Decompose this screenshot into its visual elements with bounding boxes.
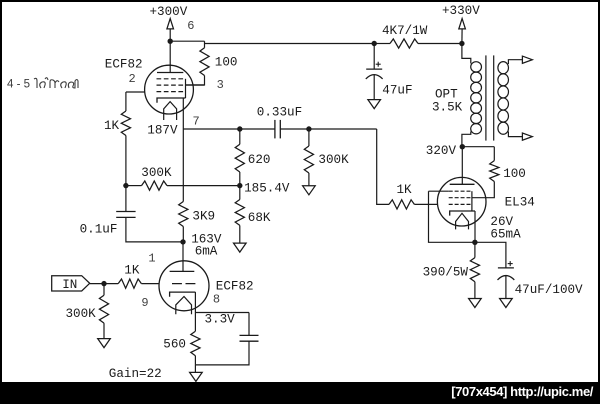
tube V2 grid xyxy=(172,283,196,285)
wire V1 g1 lead xyxy=(126,91,145,93)
node junction 300K grid xyxy=(306,126,311,131)
wire 320V to screen resistor xyxy=(462,146,494,148)
wire V1 plate lead xyxy=(169,41,171,72)
resistor R 620 xyxy=(235,144,244,172)
wire 300K grid top lead xyxy=(308,129,310,146)
wire 1K to grid xyxy=(141,283,158,285)
capacitor C 0.33uF xyxy=(275,120,280,138)
resistor R 390/5W top lead xyxy=(474,242,476,257)
wire 100R bottom lead xyxy=(186,76,205,85)
wire OPT primary top lead xyxy=(462,44,471,64)
resistor R 3K9 xyxy=(179,202,188,227)
tube V1 heater xyxy=(164,102,177,120)
tube V2 cathode xyxy=(170,292,196,297)
tube V1 plate xyxy=(157,72,183,74)
transformer T1 OPT secondary winding xyxy=(498,62,509,74)
wire node7 rail xyxy=(183,128,275,130)
wire 300K input top lead xyxy=(103,284,105,296)
node junction +300V xyxy=(168,39,173,44)
wire screen R top lead xyxy=(493,147,495,161)
tube V1 grid g1 xyxy=(157,91,184,93)
wire rail jog xyxy=(204,41,206,43)
wire V1 screen to 100R xyxy=(186,84,205,86)
resistor R 390/5W xyxy=(470,258,479,282)
tube V3 grid g3 xyxy=(449,190,471,192)
capacitor C 47uF/100V plus sign xyxy=(508,261,513,266)
tube V1 grid g3 xyxy=(157,78,184,80)
capacitor C 0.1uF xyxy=(116,212,135,218)
tube V3 grid g2 xyxy=(449,197,471,199)
ground (cathode) xyxy=(190,372,203,381)
ground (input 300K) xyxy=(98,339,111,348)
ground (390/5W) xyxy=(469,299,482,308)
wire 1K bottom lead xyxy=(125,136,127,186)
resistor R 560 xyxy=(191,331,200,356)
tube V1 cathode xyxy=(157,98,186,103)
wire 620 top lead xyxy=(239,129,241,144)
wire 390/5W bottom lead xyxy=(474,282,476,299)
tube V1 g3 tie xyxy=(185,79,187,98)
wire 300K right lead xyxy=(167,185,240,187)
ground (300K) xyxy=(303,186,316,195)
node junction +330V xyxy=(459,41,464,46)
output terminal bottom xyxy=(522,133,532,140)
wire 0.1uF top lead xyxy=(125,186,127,212)
node junction 163V xyxy=(180,239,185,244)
wire cathode to cap xyxy=(475,242,506,268)
tube V3 heater xyxy=(456,213,469,229)
wire 0.1uF bottom lead xyxy=(126,217,183,242)
wire screen R bottom lead xyxy=(472,182,494,198)
wire 620 bottom lead xyxy=(239,172,241,186)
wire coupling corner xyxy=(377,129,389,204)
resistor R 1K (V1 grid) xyxy=(121,111,130,136)
tube V1 grid g2 xyxy=(157,84,184,86)
resistor R 4K7/1W xyxy=(390,39,418,48)
resistor R 300K (input) xyxy=(99,295,108,323)
node junction feedback xyxy=(123,183,128,188)
wire 300K left lead xyxy=(126,185,142,187)
tube V3 cathode xyxy=(450,211,475,216)
wire V3 g3 return xyxy=(429,191,475,242)
resistor R 1K (input) xyxy=(118,279,141,288)
tube V3 EL34 envelope xyxy=(437,177,486,226)
wire 4K7 left lead xyxy=(374,43,390,45)
ground (47uF) xyxy=(368,100,381,109)
wire 300K grid bottom lead xyxy=(308,173,310,186)
wire OPT secondary bottom lead xyxy=(508,132,522,137)
node junction 620 top xyxy=(237,126,242,131)
wire V3 g3 lead xyxy=(429,190,449,192)
capacitor C 47uF plus sign xyxy=(376,62,381,67)
wire 560 bottom lead xyxy=(194,356,196,365)
wire OPT primary bottom lead xyxy=(462,132,471,147)
output terminal top xyxy=(522,56,532,63)
wire 4K7 right lead xyxy=(418,43,462,45)
resistor R 1K (EL34 grid stopper) xyxy=(389,200,414,209)
resistor R 68K xyxy=(235,200,244,226)
wire 68K bottom lead xyxy=(239,225,241,243)
tube V3 grid g1 xyxy=(449,203,471,205)
wire 1K to EL34 grid xyxy=(414,203,437,205)
wire V2 plate lead xyxy=(182,242,184,272)
transformer T1 core xyxy=(486,55,494,140)
resistor R 300K (EL34 grid) xyxy=(304,146,313,173)
wire 3K9 bottom lead xyxy=(182,227,184,242)
wire 300K input bottom lead xyxy=(103,323,105,339)
wire cathode row xyxy=(195,312,249,314)
ground (68K) xyxy=(234,243,247,252)
resistor R 100 (pentode screen) xyxy=(200,48,209,76)
wire 3K9 top lead xyxy=(182,129,184,202)
wire V3 plate lead xyxy=(461,147,463,185)
capacitor C 47uF/100V xyxy=(498,268,515,280)
node junction EL34 cathode xyxy=(472,240,477,245)
wire 47uF/100V bottom lead xyxy=(505,275,507,298)
capacitor C 47uF xyxy=(366,69,383,79)
wire ground lead xyxy=(194,365,196,373)
wire V3 cathode lead xyxy=(474,211,476,242)
node junction 185.4V xyxy=(237,183,242,188)
tube V3 plate xyxy=(450,183,475,185)
wire IN lead xyxy=(90,283,119,285)
capacitor C bypass xyxy=(240,335,259,341)
ground (47uF/100V) xyxy=(500,299,513,308)
wire bypass cap bottom lead xyxy=(195,341,249,365)
wire V1 cathode lead xyxy=(182,98,184,129)
tube V3 g3 tie xyxy=(471,191,473,211)
tube U1 ECF82 pentode envelope xyxy=(145,65,194,114)
resistor R 100 (EL34 screen) xyxy=(490,161,499,182)
power symbol +300V xyxy=(167,19,174,29)
wire 560 top lead xyxy=(194,313,196,332)
transformer T1 OPT primary winding xyxy=(471,62,482,72)
caption bar xyxy=(0,382,600,404)
wire V2 cathode lead xyxy=(194,292,196,312)
resistor R 300K (feedback) xyxy=(142,181,168,190)
wire node7 rail right xyxy=(280,128,376,130)
wire 100R top lead xyxy=(204,44,206,48)
node junction 47uF tap xyxy=(372,41,377,46)
wire 68K top lead xyxy=(239,186,241,200)
tube V2 ECF82 triode envelope xyxy=(159,261,209,311)
wire 1K corner xyxy=(125,92,127,111)
wire +330V stem xyxy=(461,29,463,44)
wire bypass cap top lead xyxy=(248,313,250,336)
wire top rail left xyxy=(170,40,204,42)
node junction input xyxy=(101,281,106,286)
wire +300V stem xyxy=(169,29,171,41)
tube V2 heater xyxy=(176,297,192,315)
wire 47uF top lead xyxy=(373,44,375,69)
wire top rail middle xyxy=(205,43,375,45)
power symbol +330V xyxy=(459,19,466,29)
terminal IN tag xyxy=(52,276,90,291)
wire OPT secondary top lead xyxy=(508,60,522,64)
wire 47uF bottom lead xyxy=(373,74,375,99)
tube V2 plate xyxy=(170,270,195,272)
node junction 320V xyxy=(460,144,465,149)
